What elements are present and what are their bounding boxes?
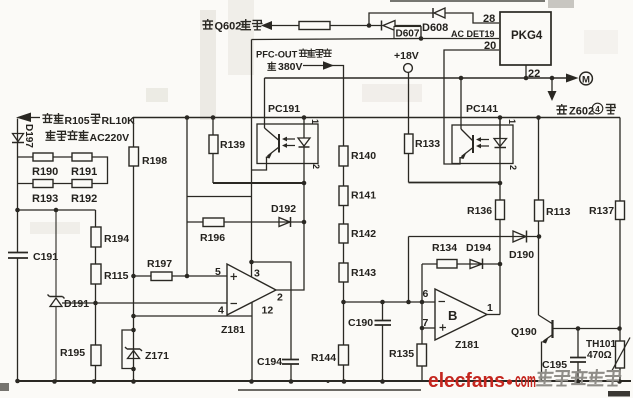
wire: +18V rail y=78 (265, 77, 567, 79)
diode D190 (513, 231, 527, 243)
wire: op-amp A inverting input y=303 (62, 302, 227, 304)
wire: PC191 pin2 / output column x=304 (276, 146, 304, 290)
capacitor C190 (375, 302, 392, 381)
junction: PC191 pin1 on main line (302, 115, 307, 120)
diode D192 (279, 217, 291, 227)
PC191 light arrows (282, 137, 295, 148)
svg-text:R191: R191 (71, 166, 97, 178)
junction: Z171 top (131, 328, 136, 333)
wire: PC141 collector to +18V rail (460, 78, 462, 129)
junction: PC141 pin1 on main line (498, 115, 503, 120)
svg-text:Z602: Z602 (569, 106, 594, 118)
junction: pin5/R196 node (185, 274, 190, 279)
junction: x=187 on main line (185, 115, 190, 120)
svg-text:PKG4: PKG4 (511, 30, 543, 42)
resistor R194 (91, 227, 101, 247)
junction: D190 cathode on R113 column (537, 234, 542, 239)
label: qu Z602 (4) jiao (557, 103, 615, 117)
label: laizi R105 he RL10K (43, 113, 135, 127)
junction: ground taps (15, 379, 622, 384)
wire: R197 line to op-amp pin 5 (134, 275, 228, 277)
label D607 (boxed) (394, 27, 421, 40)
svg-text:+18V: +18V (394, 50, 419, 62)
svg-text:R195: R195 (60, 347, 85, 359)
svg-text:2: 2 (277, 292, 283, 304)
arrow from R105/RL10K common point (16, 113, 40, 123)
zener D191 (48, 295, 65, 307)
wire: pin 20 to PC141 emitter (444, 50, 499, 164)
wire: to Q602 base line (271, 25, 421, 27)
wire: R194/R115/R195 column (95, 210, 97, 381)
svg-text:28: 28 (483, 13, 495, 25)
resistor R193 (33, 180, 53, 188)
junction: D192 cathode node (302, 220, 307, 225)
wire: AC DET pin 19 line (252, 39, 500, 40)
junction: pin 7 node (420, 326, 425, 331)
wire: R196 - D192 feedback line (187, 221, 304, 223)
svg-text:PC141: PC141 (466, 103, 498, 115)
wire: PC191 pin1 stub (303, 118, 305, 139)
resistor R136 (496, 200, 505, 220)
wire: R198 column x=133.5 (133, 118, 135, 382)
resistor R137 (616, 201, 625, 220)
svg-text:1: 1 (507, 119, 517, 124)
wire: PC141 pin1 stub (499, 118, 501, 139)
wire: pin 7 (422, 327, 435, 329)
junction: D190 node on pin6 wire (406, 300, 411, 305)
svg-text:4: 4 (218, 305, 224, 317)
wire: R113 column (538, 118, 540, 316)
junction: pin12 wire tap (131, 314, 136, 319)
svg-text:R196: R196 (200, 232, 225, 244)
wire: x=187 column from main line (186, 118, 188, 277)
svg-text:Q190: Q190 (511, 326, 537, 338)
junction: D191 column y=210 (54, 208, 59, 213)
wire: R137 column (619, 118, 621, 382)
diode D608 (433, 8, 445, 18)
resistor R192 (72, 180, 92, 188)
junction: left column y=210 (15, 208, 20, 213)
wire: R139 branch (212, 118, 214, 184)
svg-text:1: 1 (487, 302, 493, 314)
resistor R191 (72, 153, 92, 161)
svg-text:RL10K: RL10K (102, 115, 136, 127)
wire: R133 to PC141 pin 2 (409, 182, 501, 184)
resistor R143 (339, 263, 348, 282)
wire: R136 / output column x=500 (499, 118, 501, 315)
svg-text:470Ω: 470Ω (587, 350, 612, 361)
wire: D608 branch to pin 28 (369, 13, 499, 26)
resistor R134 (437, 260, 457, 269)
PC141 light arrows (476, 137, 489, 148)
diode D194 (470, 259, 483, 270)
svg-text:R190: R190 (32, 166, 58, 178)
wire: AC220V input column x=17.5 (17, 119, 19, 382)
capacitor C191 (8, 253, 28, 259)
label PFC-OUT dianya shuchu (256, 49, 331, 60)
wire: R190-R191-R192-R193 ladder (18, 157, 108, 184)
diode D197 (12, 134, 24, 143)
resistor R139 (209, 135, 218, 154)
svg-text:12: 12 (262, 305, 274, 317)
svg-text:D192: D192 (271, 203, 296, 215)
junction: D607 / AC DET pin19 (419, 36, 424, 41)
svg-text:R197: R197 (147, 258, 172, 270)
capacitor C195 (570, 329, 586, 382)
svg-text:2: 2 (311, 164, 321, 169)
svg-text:1: 1 (310, 119, 320, 124)
junction: D607/D608 split (367, 23, 372, 28)
svg-text:2: 2 (508, 165, 518, 170)
junction: Z602 tap (550, 76, 555, 81)
PC191 phototransistor (265, 128, 280, 159)
svg-text:R134: R134 (432, 242, 457, 254)
svg-text:R193: R193 (32, 193, 58, 205)
wire: Q190 emitter to ground (541, 342, 543, 382)
svg-text:Q602: Q602 (215, 21, 242, 33)
svg-text:AC220V: AC220V (90, 132, 130, 144)
svg-text:R198: R198 (142, 155, 167, 167)
PC191 LED (298, 138, 310, 147)
op-amp B (Z181) (435, 289, 487, 340)
svg-text:R115: R115 (104, 270, 129, 282)
junction: feedback node (498, 262, 503, 267)
svg-text:R192: R192 (71, 193, 97, 205)
svg-text:Z181: Z181 (455, 339, 479, 351)
svg-text:C191: C191 (33, 251, 58, 263)
wire: main line y=117.5 (133, 117, 620, 119)
arrow down to Z602 pin 4 (548, 78, 557, 101)
resistor R141 (339, 186, 348, 206)
junction: R139 on main line (211, 115, 216, 120)
wire: pin 3 stub (251, 262, 253, 277)
svg-text:PC191: PC191 (268, 103, 300, 115)
junction: R197 tap (131, 274, 136, 279)
resistor R142 (339, 224, 348, 243)
svg-text:B: B (448, 308, 457, 323)
junction: Z171 bottom (131, 367, 136, 372)
svg-text:R143: R143 (351, 267, 376, 279)
terminal M (motor) (580, 72, 593, 85)
wire: op-amp B output (487, 314, 500, 316)
wire: feedback column x=422 down through R135 (421, 264, 423, 381)
svg-text:D608: D608 (422, 22, 448, 34)
junction: op-amp A pin 3 node (249, 260, 254, 265)
PC141 LED (494, 139, 507, 148)
junction: divider bottom (341, 300, 346, 305)
wire: PC191 collector to +18V rail (264, 78, 266, 128)
wire: divider to op-amp B pin 6 (344, 301, 436, 303)
resistor R135 (417, 344, 427, 366)
svg-text:Z181: Z181 (221, 324, 245, 336)
optocoupler PC141 box (452, 125, 513, 164)
svg-text:D190: D190 (509, 249, 534, 261)
svg-text:R194: R194 (104, 233, 129, 245)
resistor R196 (203, 218, 224, 227)
svg-text:R144: R144 (311, 352, 336, 364)
label: qu Q602 jiban (to Q602 base board) (203, 19, 262, 32)
junction: R115/R195 on pin4 wire (93, 301, 98, 306)
wire: D190 anode down to pin 6 (408, 237, 410, 303)
wire: pin 12 to Z171 column y=316 (134, 315, 253, 317)
arrow to Q602 base (261, 21, 272, 30)
resistor R115 (91, 264, 101, 284)
wire: pin 22 (525, 65, 527, 78)
svg-text:R105: R105 (65, 115, 90, 127)
svg-text:7: 7 (423, 317, 429, 329)
svg-text:3: 3 (254, 268, 260, 280)
svg-text:R141: R141 (351, 190, 376, 202)
svg-text:D194: D194 (466, 242, 491, 254)
resistor R144 (339, 345, 349, 365)
junction: C195 tap (576, 326, 581, 331)
resistor R190 (33, 153, 53, 161)
svg-text:R140: R140 (351, 150, 376, 162)
transistor Q190 (539, 315, 553, 344)
terminal +18V (404, 64, 413, 73)
op-amp A (Z181) (227, 264, 276, 315)
svg-text:D197: D197 (23, 124, 34, 148)
svg-text:AC DET19: AC DET19 (451, 29, 495, 39)
svg-text:5: 5 (215, 266, 221, 278)
wire: D607 label box edge to AC DET (420, 27, 422, 39)
wire: branch y=196.5 to emitter column (187, 196, 252, 198)
svg-text:Z171: Z171 (145, 350, 169, 362)
svg-text:com: com (515, 370, 536, 392)
wire: D190 line (409, 236, 540, 238)
svg-text:PFC-OUT: PFC-OUT (256, 50, 298, 60)
svg-text:TH101: TH101 (586, 339, 616, 350)
svg-text:M: M (582, 75, 590, 86)
resistor R195 (91, 345, 101, 366)
svg-text:R135: R135 (389, 348, 414, 360)
junction: R133 / pin2 node (498, 181, 503, 186)
label yue 380V (268, 61, 303, 73)
wire: D191 branch (55, 210, 57, 381)
svg-text:6: 6 (423, 288, 429, 300)
wire: ground bus (16, 380, 631, 382)
junction: R137/TH101 node (617, 326, 622, 331)
junction: pin 22 on +18V rail (524, 76, 529, 81)
svg-text:D607: D607 (396, 29, 420, 40)
capacitor C194 (282, 360, 299, 365)
optocoupler PC191 box (257, 124, 318, 164)
arrow to motor M (566, 74, 579, 83)
resistor R197 (151, 272, 172, 281)
diode D607 (382, 21, 396, 31)
resistor R113 (535, 200, 544, 221)
resistor (unlabeled) in Q602 line (299, 22, 330, 30)
svg-text:C190: C190 (348, 317, 373, 329)
wire: Q190 base node (553, 328, 620, 330)
svg-text:R139: R139 (220, 139, 245, 151)
resistor R140 (339, 146, 348, 166)
svg-text:D191: D191 (64, 298, 89, 310)
wire: PC191 emitter to node column (252, 157, 267, 171)
junction: PC191 pin2 node (302, 181, 307, 186)
wire: R144 column (343, 302, 345, 381)
svg-text:R136: R136 (467, 205, 492, 217)
wire: Z171 bypass loop (122, 330, 134, 369)
junction: collector on +18V rail (459, 76, 464, 81)
label: de gonggongdian AC220V (46, 130, 129, 144)
svg-text:R142: R142 (351, 228, 376, 240)
junction: pin 6 crossing (420, 300, 425, 305)
PC141 phototransistor (460, 129, 474, 159)
svg-text:R137: R137 (589, 205, 614, 217)
svg-text:R113: R113 (546, 206, 571, 218)
svg-text:4: 4 (595, 105, 600, 114)
wire: R139 to PC191 pin 2 (heavy) (213, 182, 304, 184)
wire: pin 12 column (251, 303, 253, 382)
junction: R113 top on main line (536, 115, 541, 120)
svg-text:380V: 380V (278, 61, 303, 73)
svg-text:C194: C194 (257, 356, 282, 368)
wire: +18V stem down through R133 (408, 72, 410, 182)
svg-text:elecfans: elecfans (428, 370, 505, 392)
wire: PFC 380V feed with arrow, down to divider (303, 61, 344, 302)
wire: pin 3 to C194 column (252, 262, 292, 381)
thermistor TH101 (612, 338, 631, 372)
resistor R133 (405, 134, 414, 154)
wire: R134/D194 feedback line (422, 263, 500, 265)
zener Z171 (125, 347, 142, 359)
IC PKG4 (500, 12, 551, 65)
wire: link y=210 (18, 209, 96, 211)
wire: AC DET node column x=251.5 (251, 40, 253, 263)
resistor R198 (129, 147, 139, 166)
svg-text:R133: R133 (415, 138, 440, 150)
junction: C190 tap (380, 300, 385, 305)
